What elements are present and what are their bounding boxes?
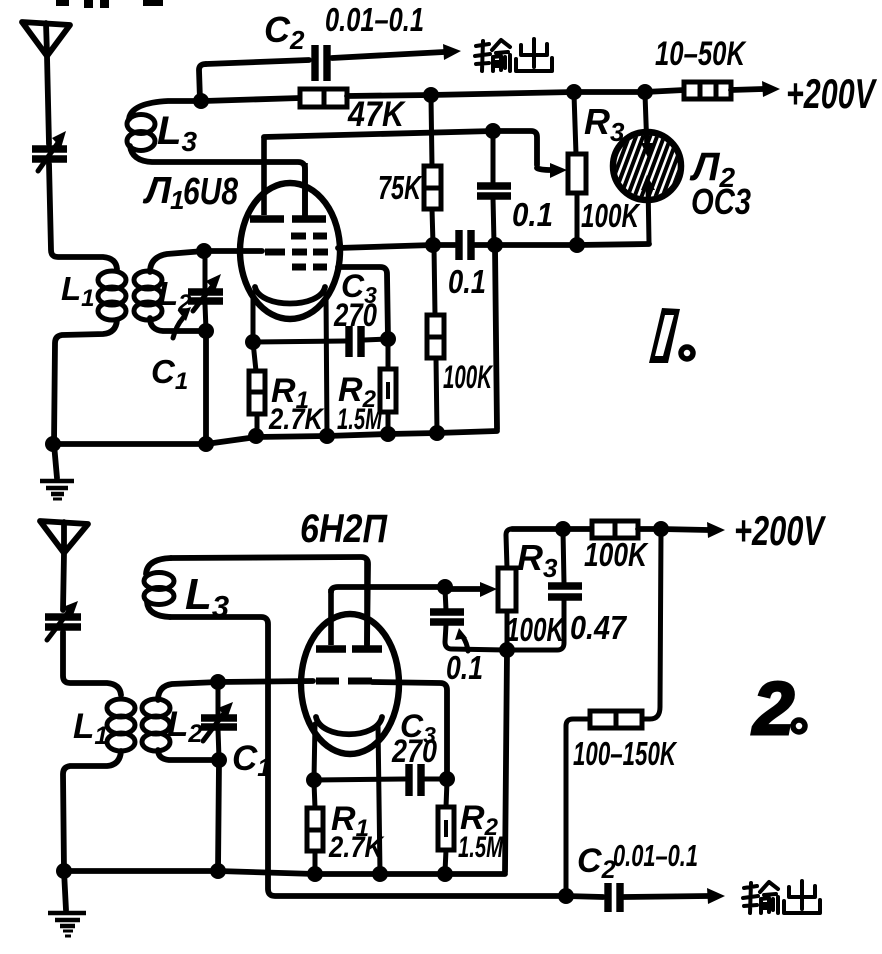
neon lamp Л2 ОС3 xyxy=(596,94,717,243)
svg-text:0.47: 0.47 xyxy=(570,609,627,646)
wire cathode left lead (circuit 2) xyxy=(314,724,315,779)
wire plate (triode) to R3 slider arrow xyxy=(264,131,567,178)
wire L2 bottom to C1 bottom node (circuit 2) xyxy=(158,750,219,760)
capacitor C1 (variable, circuit 2) xyxy=(201,684,237,759)
wire and arrow to output (circuit 2) xyxy=(624,888,725,904)
wire L2 top to grid node xyxy=(150,251,204,272)
node coupling cap right (junction dot) xyxy=(487,237,503,253)
svg-text:47K: 47K xyxy=(347,95,406,134)
antenna W1 (circuit 1) xyxy=(22,22,70,144)
ground bus (circuit 1) xyxy=(54,431,497,444)
node R3 bottom (junction dot, circuit 2) xyxy=(499,642,515,658)
node 100K bottom (junction dot) xyxy=(429,425,445,441)
resistor 75K (circuit 1) xyxy=(424,97,441,244)
ground symbol (circuit 1) xyxy=(40,444,74,499)
wire grid right to C3 node (circuit 2) xyxy=(372,682,447,778)
svg-text:0.1: 0.1 xyxy=(512,196,553,233)
label 输出 (output, circuit 2) xyxy=(743,881,820,913)
node 0.1 top (junction dot, circuit 2) xyxy=(437,579,453,595)
inductor L2 (circuit 1) xyxy=(134,271,162,320)
svg-text:100K: 100K xyxy=(584,536,649,573)
capacitor 0.47 (circuit 2) xyxy=(509,531,582,650)
svg-text:2.7K: 2.7K xyxy=(268,403,325,436)
wire grid node to tube xyxy=(204,248,262,254)
label C1 with pointer arrow xyxy=(151,307,191,395)
potentiometer R3 100K (circuit 2) xyxy=(498,529,516,648)
node grid (junction dot, circuit 2) xyxy=(210,674,226,690)
tube 6Н2П right anode xyxy=(352,560,382,649)
tube Л1 grid (control, dashed row 2) xyxy=(265,249,328,256)
wire cathode left lead xyxy=(251,293,256,341)
resistor R1 2.7K (circuit 2) xyxy=(307,782,323,872)
tube 6Н2П envelope xyxy=(301,614,399,754)
node R2 bottom (junction dot, circuit 2) xyxy=(437,866,453,882)
tube 6Н2П grid (dashed) xyxy=(316,678,372,685)
node C1 ground (junction dot) xyxy=(198,436,214,452)
node R1 bottom (junction dot) xyxy=(248,428,264,444)
wire L3 top to tube right anode (circuit 2) xyxy=(171,557,368,645)
wire screen node row (tube to coupling cap) xyxy=(338,245,433,248)
svg-text:6U8: 6U8 xyxy=(183,171,239,213)
node R2 bottom (junction dot) xyxy=(380,426,396,442)
node 75K top (junction dot) xyxy=(423,87,439,103)
torn text fragments at top edge xyxy=(56,0,163,8)
label 0.1 with pointer arrow xyxy=(446,628,483,686)
inductor L3 (circuit 1) xyxy=(127,101,305,216)
node bus left / ground (junction dot, circuit 2) xyxy=(56,863,72,879)
wire L1 bottom to ground bus xyxy=(54,320,117,444)
node cathode (junction dot, circuit 2) xyxy=(306,772,322,788)
capacitor C2 0.01-0.1 (circuit 1) xyxy=(315,45,327,81)
svg-text:100K: 100K xyxy=(443,359,494,395)
node C1 bottom (junction dot) xyxy=(198,323,214,339)
svg-text:270: 270 xyxy=(391,733,437,769)
svg-text:2.7K: 2.7K xyxy=(328,831,385,864)
wire C1 node down to ground bus (circuit 2) xyxy=(218,762,219,871)
node 75K bottom (junction dot) xyxy=(425,237,441,253)
label 输出 (output, circuit 1) xyxy=(475,39,552,71)
figure label 1. xyxy=(649,308,693,363)
node cathode-lead ground (junction dot, circuit 2) xyxy=(372,866,388,882)
svg-text:75K: 75K xyxy=(378,169,423,206)
wire and arrow to +200V (circuit 2) xyxy=(638,522,725,538)
label Л1 6U8 xyxy=(142,170,239,215)
wire L2 bottom to C1 bottom node xyxy=(150,318,204,331)
node 0.47 top (junction dot, circuit 2) xyxy=(555,521,571,537)
node C1 bottom (junction dot, circuit 2) xyxy=(211,752,227,768)
inductor L1 (circuit 1) xyxy=(98,271,126,320)
resistor 100-150K (circuit 2) xyxy=(566,531,661,895)
svg-text:6Н2П: 6Н2П xyxy=(300,507,388,551)
resistor R2 1.5M (circuit 1) xyxy=(380,341,396,433)
wire antenna to L1 top xyxy=(49,164,117,269)
node 100-150K top (junction dot, circuit 2) xyxy=(653,521,669,537)
node C3 right (junction dot) xyxy=(380,331,396,347)
wire cathode right lead to ground bus (circuit 2) xyxy=(378,725,380,873)
node R3 bottom (junction dot) xyxy=(569,237,585,253)
node output (junction dot, circuit 2) xyxy=(558,888,574,904)
wire node to R3 bottom node and lamp bottom xyxy=(495,244,649,245)
node cathode (junction dot) xyxy=(245,334,261,350)
wire cathode right lead to ground bus xyxy=(326,294,327,435)
wire L1 bottom to ground (circuit 2) xyxy=(63,751,121,871)
wire C1 bottom to ground bus xyxy=(203,333,209,444)
svg-text:0.1: 0.1 xyxy=(448,263,486,300)
inductor L1 (circuit 2) xyxy=(107,699,135,751)
node bus left / ground (junction dot) xyxy=(45,436,61,452)
resistor R1 2.7K (circuit 1) xyxy=(249,342,265,435)
node grid (junction dot) xyxy=(196,243,212,259)
wire C3 node up and to tube grid 3 xyxy=(338,267,388,339)
svg-text:Л: Л xyxy=(142,170,172,212)
node C1 ground (junction dot, circuit 2) xyxy=(210,863,226,879)
tube 6Н2П cathode xyxy=(316,717,382,734)
svg-text:270: 270 xyxy=(333,297,377,333)
wire R3 bottom to ground bus corner (circuit 2) xyxy=(505,652,507,872)
tube Л1 grid (screen, dashed row 1) xyxy=(291,233,327,240)
resistor 10-50K (B+ dropper) xyxy=(684,82,731,99)
node R3 top (junction dot) xyxy=(566,84,582,100)
wire L3 node through resistor to B+ rail xyxy=(204,98,300,101)
node L3 top (junction dot) xyxy=(193,93,209,109)
resistor 100K (B+ feed, circuit 2) xyxy=(592,521,638,538)
tube Л1 pentode anode (right plate) xyxy=(292,163,326,219)
variable capacitor (antenna trimmer, circuit 2) xyxy=(45,601,81,640)
resistor 4.7K (plate load, circuit 1) xyxy=(300,89,347,107)
svg-text:0.01–0.1: 0.01–0.1 xyxy=(325,1,424,38)
potentiometer R3 100K (circuit 1) xyxy=(568,94,586,244)
svg-text:+200V: +200V xyxy=(786,70,877,117)
inductor L2 (circuit 2) xyxy=(142,699,170,751)
svg-text:100K: 100K xyxy=(506,611,566,648)
inductor L3 (circuit 2) xyxy=(144,558,174,617)
svg-text:100K: 100K xyxy=(581,197,641,234)
capacitor C3 270 (circuit 1) xyxy=(253,326,388,357)
tube Л1 grid (suppressor, dashed row 3) xyxy=(292,264,327,271)
svg-text:0.01–0.1: 0.01–0.1 xyxy=(613,838,698,873)
wire C2 to output arrow xyxy=(332,44,461,60)
node cathode-lead ground (junction dot) xyxy=(319,428,335,444)
svg-text:100–150K: 100–150K xyxy=(573,735,677,772)
ground bus (circuit 2) xyxy=(64,871,505,874)
tube Л1 triode anode (left plate) xyxy=(250,137,284,219)
svg-text:1.5M: 1.5M xyxy=(458,831,504,864)
tube Л1 6U8 envelope xyxy=(240,183,340,319)
figure label 2. xyxy=(751,667,805,750)
svg-text:10–50K: 10–50K xyxy=(655,35,747,73)
wire left anode up and to R3 slider arrow (circuit 2) xyxy=(331,582,497,597)
svg-text:1.5M: 1.5M xyxy=(337,403,383,436)
tube 6Н2П left anode xyxy=(316,589,346,649)
capacitor C2 0.01-0.1 (circuit 2) xyxy=(566,883,620,912)
node R1 bottom (junction dot, circuit 2) xyxy=(307,866,323,882)
svg-text:2: 2 xyxy=(751,667,794,750)
capacitor C3 270 (circuit 2) xyxy=(314,764,447,796)
resistor 100K (grid leak, circuit 1) xyxy=(427,247,444,432)
capacitor C1 (variable, circuit 1) xyxy=(188,253,223,330)
wire L3 bottom to output node (circuit 2) xyxy=(170,617,566,896)
capacitor 0.1 (circuit 2) xyxy=(430,589,505,650)
wire +200V rail (circuit 2) xyxy=(512,526,592,532)
tube Л1 cathode xyxy=(255,287,325,304)
resistor R2 1.5M (circuit 2) xyxy=(438,781,454,872)
svg-text:+200V: +200V xyxy=(734,507,826,554)
svg-text:ОС3: ОС3 xyxy=(691,181,751,222)
wire grid node to tube (circuit 2) xyxy=(218,681,313,682)
capacitor 0.1 (plate decoupling, horizontal plates) xyxy=(477,133,511,243)
wire 4.7K to +200V rail xyxy=(347,90,684,96)
node 0.1 cap top (junction dot) xyxy=(485,123,501,139)
wire to capacitor C2 xyxy=(206,60,309,64)
wire L2 top to grid node (circuit 2) xyxy=(158,682,218,700)
ground symbol (circuit 2) xyxy=(48,871,86,936)
node lamp top (junction dot) xyxy=(637,84,653,100)
wire antenna down and right to L1 (circuit 2) xyxy=(63,632,121,695)
capacitor 0.1 (coupling, vertical plates, circuit 1) xyxy=(433,230,495,260)
wire node down to ground bus corner xyxy=(495,247,497,429)
antenna W1 (circuit 2) xyxy=(40,521,88,610)
variable capacitor (antenna trimmer, circuit 1) xyxy=(32,131,67,171)
svg-text:0.1: 0.1 xyxy=(446,649,483,686)
wire and arrow to +200V xyxy=(731,81,780,97)
node C3 right (junction dot, circuit 2) xyxy=(439,771,455,787)
wire stub up from L3 node to C2 wire xyxy=(199,64,206,100)
